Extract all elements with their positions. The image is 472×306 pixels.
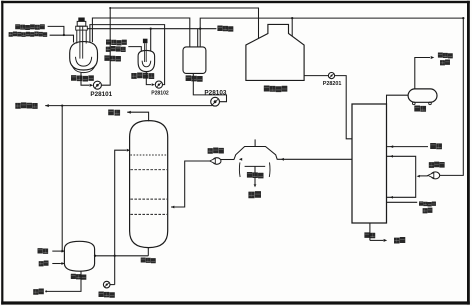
label 炉渣 slag — [364, 232, 369, 238]
ESP left plate — [238, 162, 241, 177]
arrow slag disposal — [384, 239, 388, 242]
wire drum vent to flare header — [415, 58, 430, 89]
junction at circulation tank outlet — [94, 255, 96, 257]
wire reactor R1 nozzle A line to pump P28102 discharge — [90, 25, 165, 85]
column packing line 2 — [130, 169, 167, 171]
wire column flue inlet from ID fan — [171, 161, 213, 207]
blower 鼓风机 fan — [431, 172, 440, 179]
wire blower to air duct — [419, 175, 428, 177]
reactor R2 inner bottom arc — [142, 61, 151, 67]
wire sludge drain — [47, 271, 81, 291]
pump P28102 — [155, 81, 162, 88]
arrow at ESP outlet — [239, 158, 242, 161]
reactor R1 neck flange — [76, 26, 88, 30]
arrow into column flue inlet — [171, 206, 174, 209]
wire fuel line natural gas/diesel — [387, 201, 418, 203]
pump P28201 — [328, 73, 334, 79]
reactor R1 inner bottom arc — [76, 57, 92, 66]
wire ESP ash drop — [254, 166, 256, 184]
label 空气 air — [39, 261, 44, 266]
label 碱水 alkali water — [38, 248, 43, 253]
wire column bottom outlet — [147, 248, 149, 256]
arrow air duct lower into incinerator — [390, 196, 393, 199]
arrow alkali water inlet — [61, 250, 64, 253]
arrow into pump P28101 — [90, 84, 94, 87]
wire reactor R1 nozzle B line to wastewater tank — [92, 18, 189, 48]
wire drop to circulation tank alkali junction — [61, 106, 63, 252]
label 废液储槽 storage tank — [264, 86, 270, 92]
arrow to wastewater treatment — [45, 104, 49, 107]
reactor R1 motor — [78, 18, 84, 22]
arrow air inlet — [61, 262, 64, 265]
junction alkali water — [61, 250, 63, 252]
wire column top vent — [127, 112, 148, 121]
label 管网 pipe network line2 — [440, 60, 445, 65]
wire circulation line to tank — [95, 255, 149, 257]
wire silo outlet to pump P28201 — [304, 75, 328, 77]
arrow air duct upper into incinerator — [390, 155, 393, 158]
label feed stream 2 (4600 m spinning wastewater) — [9, 32, 13, 37]
arrow into pump P28102 — [152, 83, 155, 86]
pump 循环泵 circulation pump — [103, 281, 110, 288]
arrow to atmosphere — [127, 111, 131, 114]
label 放空 vent line1 — [438, 53, 443, 58]
label 消泡剂罐 defoamer tank — [131, 73, 136, 79]
wire wastewater tank nozzle 2 — [197, 29, 199, 48]
label additives line1 (peroxide neutraliser) — [106, 39, 111, 44]
junction to circulation tank drop — [61, 104, 63, 106]
arrow into ESP inlet — [281, 158, 284, 161]
reactor R1 vessel body — [70, 42, 98, 70]
label 大气 atmosphere — [108, 109, 114, 115]
wire pump P28101 discharge riser and top line to storage tank — [101, 8, 258, 85]
column packing line 1 — [130, 154, 167, 156]
wire ESP inlet duct from incinerator — [277, 158, 352, 160]
label 废水罐 wastewater tank — [186, 75, 192, 81]
wire alkali water into circulation tank — [52, 250, 61, 252]
ESP roof outline — [234, 147, 277, 160]
reactor R2 vessel body — [138, 50, 155, 71]
label additives line3 (compound agent) — [104, 55, 109, 61]
junction circulation tee — [114, 255, 116, 257]
junction at wastewater tank nozzle — [199, 28, 201, 30]
svg-text:P28103: P28103 — [204, 89, 226, 96]
arrow column spray inlet — [127, 149, 130, 152]
ESP 电除尘 electrostatic precipitator top stub — [254, 139, 256, 146]
wire feed2 to reactor R1 — [50, 35, 74, 42]
reactor R2 motor — [143, 39, 148, 44]
label 吸收塔 absorber — [141, 257, 146, 262]
label 循环泵 circulation pump — [99, 292, 104, 298]
label 循环槽 circulation tank — [71, 274, 76, 279]
wire additives to reactor R2 — [128, 47, 141, 52]
column 吸收塔 absorber body — [130, 121, 168, 248]
reactor R1 agitator shaft — [79, 26, 81, 58]
wire reactor R2 outlet to pump P28102 — [146, 72, 151, 85]
combustion air duct loop — [387, 156, 416, 197]
arrow ash down — [254, 184, 257, 187]
reactor R1 neck — [76, 30, 78, 43]
arrow into air duct — [417, 175, 420, 178]
pump P28103 — [211, 97, 220, 106]
tank 废液储槽 waste liquor storage silo — [246, 24, 304, 80]
junction corner at right riser — [462, 17, 464, 19]
tank 废水罐 wastewater tank — [183, 47, 206, 74]
label 引风机 ID fan — [208, 148, 213, 154]
label 废碱水 waste alkali water — [217, 26, 222, 31]
label additives line2 (agent, silica) — [106, 47, 111, 52]
wire air into circulation tank — [52, 263, 61, 265]
arrow to vent header — [431, 56, 435, 59]
column packing line 3 — [130, 198, 167, 200]
junction to reactor R2 — [150, 28, 152, 30]
label 外运 disposal — [394, 238, 400, 244]
label 预处理罐 pre-treatment tank — [71, 75, 76, 81]
dot sludge line end — [45, 290, 47, 292]
label 电除尘 ESP — [247, 172, 252, 178]
label 污泥 sludge — [33, 289, 38, 295]
reactor R1 outer bottom arc — [72, 65, 95, 73]
label 废水处理 wastewater treatment — [15, 103, 20, 109]
label 汽包 steam drum — [414, 106, 420, 112]
wire steam line to drum — [387, 95, 409, 104]
wire pump P28201 to incinerator — [335, 76, 352, 139]
wire header to blower riser — [200, 18, 463, 175]
wire circulation pump suction — [110, 284, 115, 286]
wire reactor R1 bottom outlet to pump P28101 — [81, 73, 89, 85]
wire slag to disposal — [370, 239, 384, 241]
label 烟灰 fly ash — [248, 192, 254, 199]
svg-text:P28201: P28201 — [323, 81, 342, 87]
arrow soft water into incinerator — [390, 145, 393, 148]
wire drop onto storage tank right slope — [291, 18, 293, 36]
svg-text:P28101: P28101 — [90, 91, 112, 98]
wire waste alkali water header — [87, 28, 216, 30]
pump P28101 — [93, 81, 101, 89]
frame border — [1, 1, 470, 3]
steam drum 汽包 — [408, 89, 437, 102]
junction drop to storage tank hatch — [291, 17, 293, 19]
wire slag outlet — [369, 223, 371, 240]
column packing line 4 — [130, 213, 167, 215]
wire spray water riser to column inlet — [115, 150, 127, 284]
svg-text:P28102: P28102 — [151, 91, 169, 97]
ESP right plate — [268, 162, 271, 177]
wire fan to ESP — [221, 159, 234, 161]
label 天然气 natural gas — [419, 201, 423, 205]
ESP collector bar — [245, 165, 266, 167]
label 鼓风机 blower — [429, 162, 434, 168]
label 软水 soft water — [430, 143, 436, 149]
fan 引风机 induced draft fan — [213, 158, 221, 165]
tank 循环槽 circulation tank — [64, 241, 94, 271]
label 柴油 diesel — [423, 208, 428, 213]
wire main wastewater line to pump P28103 — [45, 105, 212, 107]
junction feed lines — [63, 34, 65, 36]
steam drum wheel left — [413, 102, 416, 105]
reactor R2 agitator shaft — [144, 43, 146, 62]
wire tank outlet to pump P28103 — [193, 73, 226, 101]
incinerator furnace body — [352, 104, 387, 223]
wire feed1 to junction — [48, 26, 64, 35]
wire drop into reactor R2 — [150, 29, 152, 51]
steam drum wheel right — [429, 102, 432, 105]
wire soft water line — [387, 146, 429, 148]
label feed stream 1 (red/natural colour packing) — [15, 24, 20, 29]
